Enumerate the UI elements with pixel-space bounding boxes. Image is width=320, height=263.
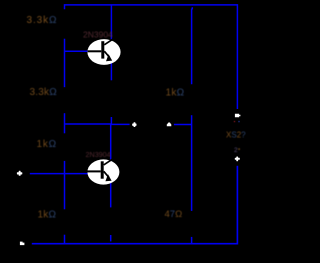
wire input to Q2 base — [30, 173, 89, 175]
wire top VCC rail with left stub and right vertical — [65, 5, 238, 109]
node input port marker (white plus, left) — [17, 171, 22, 176]
wire Q2 emitter — [110, 183, 112, 207]
wire Q2 emitter bottom stub — [110, 235, 112, 241]
wire Q1 base — [65, 50, 90, 52]
svg-text:XS2?: XS2? — [226, 131, 246, 140]
wire left rail segment below R1 to Q1 base node — [64, 39, 66, 87]
svg-text:1kΩ: 1kΩ — [37, 139, 57, 150]
wire node horizontal right piece — [111, 123, 129, 125]
svg-text:2: 2 — [234, 147, 238, 154]
svg-text:47Ω: 47Ω — [165, 209, 183, 220]
wire right resistor column middle — [191, 115, 193, 211]
wire node to Q2 collector — [110, 117, 113, 162]
svg-text:2N3904: 2N3904 — [83, 30, 113, 40]
transistor Q2 — [87, 158, 119, 184]
wire horizontal node to Q collector column — [65, 123, 112, 125]
wire right resistor column upper — [191, 7, 194, 84]
wire left rail segment below R3 — [64, 161, 66, 209]
wire Q1 collector to VCC — [110, 5, 112, 40]
svg-text:3.3kΩ: 3.3kΩ — [30, 87, 58, 98]
transistor Q1 — [87, 38, 120, 65]
wire Q1 emitter — [110, 63, 112, 81]
wire right resistor column bottom stub — [191, 237, 193, 243]
node pin mark — [238, 148, 240, 150]
svg-text:3.3kΩ: 3.3kΩ — [27, 15, 58, 26]
node junction marker on coupling wire (white blob) — [132, 122, 136, 127]
svg-text:1kΩ: 1kΩ — [166, 88, 185, 99]
wire horizontal into right column — [174, 124, 192, 126]
wire ground rail with right vertical — [32, 166, 238, 244]
svg-text:1kΩ: 1kΩ — [38, 210, 57, 221]
node pin dot blue — [238, 121, 240, 123]
node ground flag marker (bottom left) — [20, 242, 25, 246]
node probe marker (white triangle) — [167, 123, 172, 127]
wire left rail bottom stub — [64, 235, 66, 243]
node output port marker (white plus, right) — [235, 157, 240, 162]
node output flag marker (right) — [235, 114, 241, 118]
node pin dot red — [234, 121, 236, 123]
svg-text:2N3904: 2N3904 — [86, 150, 111, 159]
wire left rail segment R2 to node — [64, 113, 66, 133]
